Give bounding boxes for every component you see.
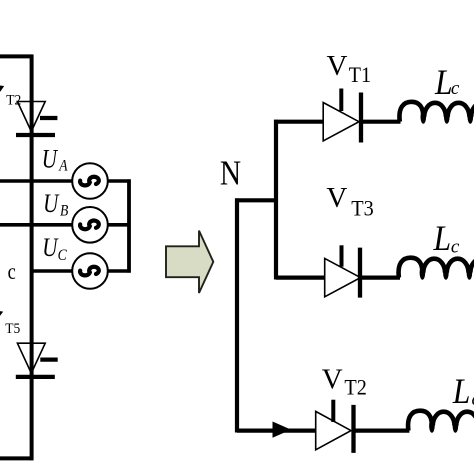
- wire: middle branch left: [276, 276, 325, 280]
- svg-text:V: V: [327, 50, 348, 82]
- wire: bottom branch left: [237, 429, 316, 433]
- wire: top branch right: [361, 120, 401, 124]
- wire: phase C line: [32, 269, 73, 273]
- label U_A: [42, 146, 69, 175]
- wire: N to upper junction: [235, 198, 278, 202]
- wire: phase A to neutral: [107, 179, 131, 183]
- svg-text:L: L: [434, 63, 453, 102]
- wire: middle branch right: [360, 276, 400, 280]
- svg-text:L: L: [452, 372, 471, 411]
- wire: upper junction vertical: [274, 120, 278, 280]
- thyristor V_T5: [16, 343, 58, 377]
- thyristor V_T3: [325, 245, 361, 297]
- label U_C: [42, 234, 67, 264]
- svg-text:c: c: [451, 78, 460, 99]
- source U_C: [72, 253, 108, 289]
- wire: phase B to neutral: [107, 223, 131, 227]
- svg-text:T1: T1: [349, 62, 371, 87]
- wire: phase B line: [0, 223, 73, 227]
- label L_c middle: [433, 219, 460, 258]
- svg-text:N: N: [220, 153, 241, 192]
- svg-text:U: U: [42, 234, 59, 263]
- thyristor V_T2: [16, 102, 57, 136]
- svg-text:T5: T5: [5, 320, 20, 337]
- label V_T1: [327, 50, 372, 87]
- wire: left c-phase vertical bus: [30, 55, 34, 461]
- svg-text:B: B: [60, 203, 68, 220]
- label V_T2 (right): [322, 364, 367, 400]
- svg-text:U: U: [43, 190, 60, 219]
- svg-text:T2: T2: [344, 375, 366, 400]
- svg-text:V: V: [326, 182, 347, 214]
- wire: left bottom rail: [0, 456, 33, 460]
- svg-text:c: c: [8, 258, 16, 285]
- current direction arrowhead: [273, 422, 292, 438]
- svg-text:V: V: [322, 364, 343, 396]
- thyristor V_T2 (right): [316, 400, 354, 453]
- wire: neutral vertical bus right of sources: [127, 179, 131, 272]
- label L_c bottom: [452, 372, 474, 411]
- inductor L_c bottom: [408, 411, 474, 433]
- svg-text:A: A: [58, 158, 68, 175]
- svg-text:C: C: [58, 247, 68, 264]
- wire: N bus vertical: [235, 198, 239, 432]
- label L_c top: [434, 63, 460, 102]
- svg-text:c: c: [451, 236, 460, 257]
- thyristor V_T1: [323, 89, 361, 143]
- wire: phase C to neutral: [107, 269, 131, 273]
- wire: left top rail: [0, 54, 33, 58]
- wire: bottom branch right: [354, 429, 410, 433]
- source U_A: [72, 163, 108, 199]
- svg-text:U: U: [42, 146, 59, 175]
- big arrow (figure transition): [166, 231, 213, 293]
- label V_T5 (cropped V): [0, 311, 3, 317]
- label V_T2 left (cropped V): [0, 85, 4, 92]
- label U_B: [43, 190, 68, 220]
- wire: top branch left: [274, 120, 323, 124]
- source U_B: [72, 207, 108, 243]
- inductor L_c top: [399, 102, 474, 124]
- wire: phase A line: [0, 179, 73, 183]
- inductor L_c middle: [399, 258, 474, 280]
- svg-text:T3: T3: [351, 196, 373, 221]
- svg-text:L: L: [433, 219, 452, 258]
- label V_T3: [326, 182, 373, 220]
